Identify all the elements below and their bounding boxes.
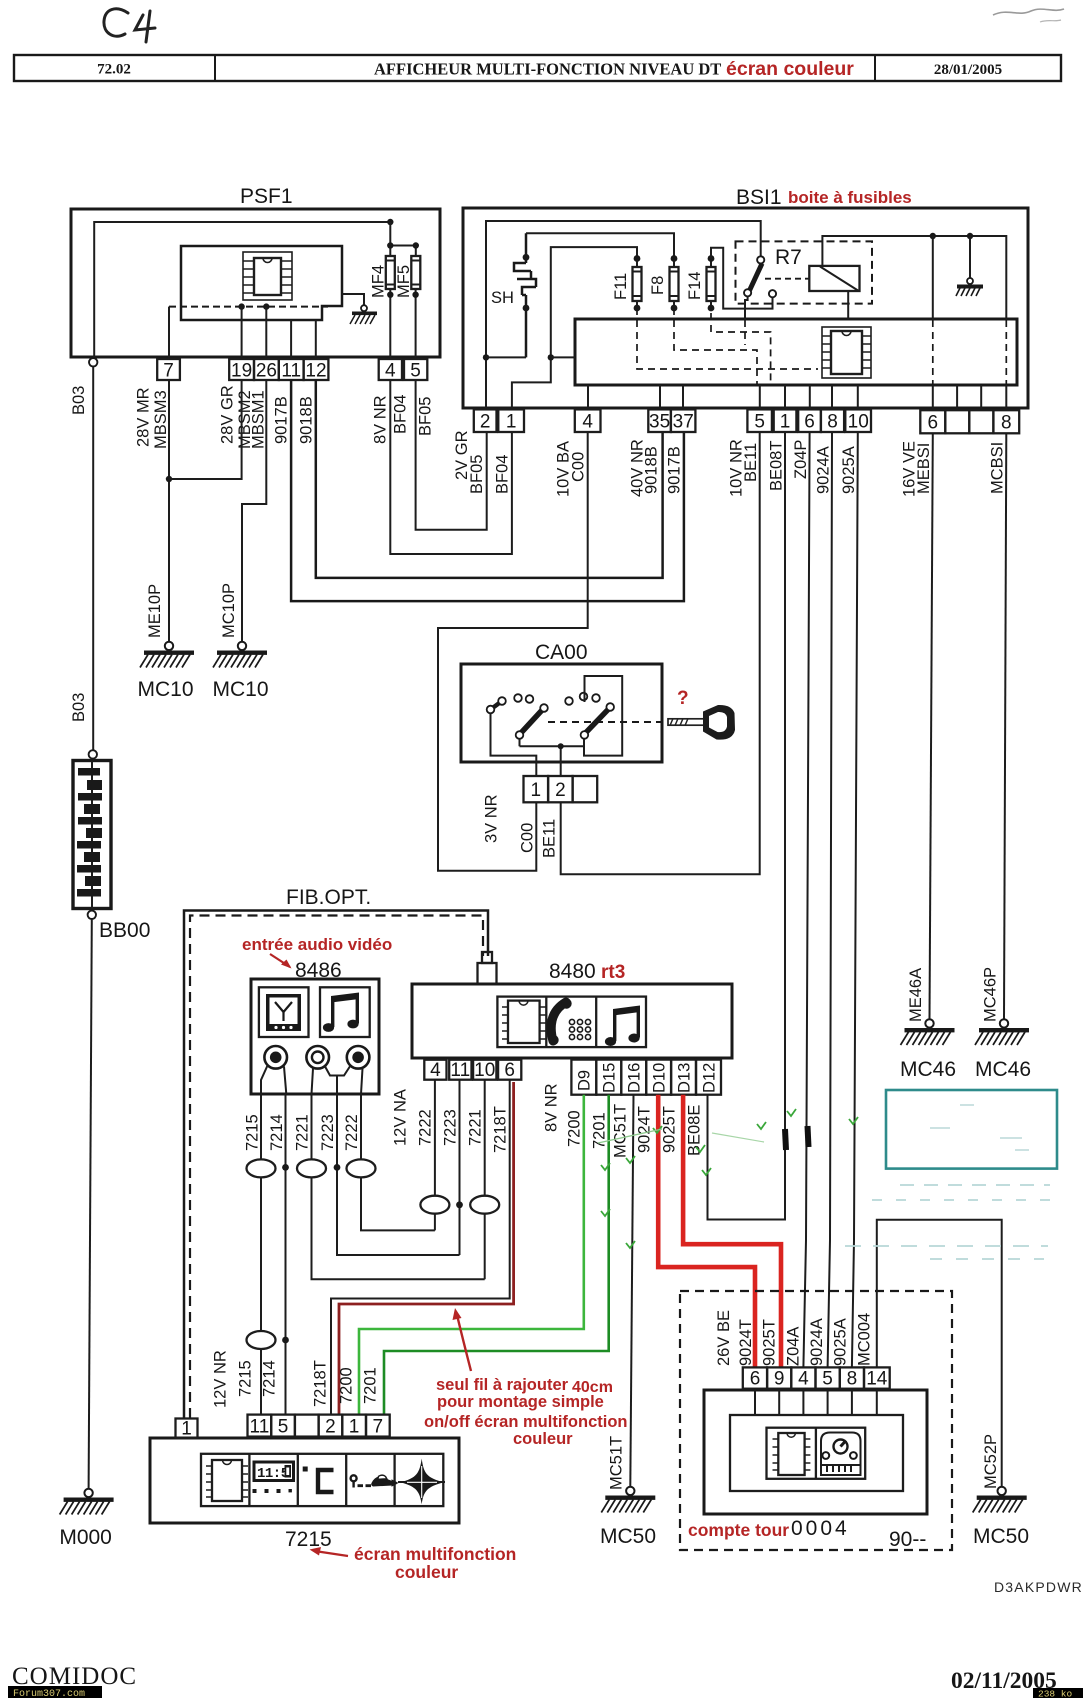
junction xyxy=(413,242,419,248)
PSF1 pin 11 xyxy=(279,359,304,382)
svg-text:FIB.OPT.: FIB.OPT. xyxy=(286,886,371,909)
BSI1 empty pin xyxy=(969,410,993,433)
svg-text:72.02: 72.02 xyxy=(97,62,131,78)
internal dashed MCBSI xyxy=(1005,320,1007,385)
svg-text:MC10P: MC10P xyxy=(220,583,238,638)
svg-text:7200: 7200 xyxy=(566,1110,584,1147)
svg-text:10: 10 xyxy=(848,412,869,433)
0004 pin 14 xyxy=(864,1367,890,1389)
CA00 pin 2 xyxy=(548,776,573,802)
svg-text:on/off écran multifonction: on/off écran multifonction xyxy=(424,1413,628,1431)
8480 pin 11 xyxy=(449,1060,471,1081)
faint green diagonal remnant xyxy=(598,1129,662,1143)
7215 key-car icon xyxy=(351,1475,399,1487)
svg-text:28/01/2005: 28/01/2005 xyxy=(934,62,1002,78)
wire MEBSI to ground xyxy=(930,433,933,1019)
svg-text:90--: 90-- xyxy=(889,1528,926,1551)
junction xyxy=(387,219,393,225)
0004 pin stubs xyxy=(755,1389,877,1415)
BSI1 pin 10 xyxy=(845,409,871,432)
svg-text:1: 1 xyxy=(780,412,791,433)
svg-text:26: 26 xyxy=(256,361,277,382)
svg-text:rt3: rt3 xyxy=(601,962,625,983)
svg-text:11: 11 xyxy=(281,361,301,382)
wire BE11 BSI1 to CA00 xyxy=(561,432,760,874)
ground MC50 right xyxy=(973,1487,1027,1513)
svg-text:12V NA: 12V NA xyxy=(392,1089,410,1146)
node circle above BB00 xyxy=(89,750,97,758)
wire F8 top feed xyxy=(526,233,674,258)
svg-text:7201: 7201 xyxy=(362,1367,380,1404)
wire 9025T red xyxy=(683,1095,781,1368)
wire unit to pin 11 xyxy=(290,320,292,359)
svg-text:C00: C00 xyxy=(519,823,537,853)
svg-text:F11: F11 xyxy=(612,273,630,300)
svg-text:écran multifonction: écran multifonction xyxy=(354,1544,516,1564)
junction xyxy=(166,476,172,482)
90-- dashed enclosure xyxy=(680,1291,952,1551)
svg-text:pour montage simple: pour montage simple xyxy=(437,1393,604,1411)
svg-text:6: 6 xyxy=(750,1369,761,1390)
svg-text:BE08T: BE08T xyxy=(768,441,786,491)
svg-text:26V BE: 26V BE xyxy=(715,1310,733,1366)
svg-text:MC46: MC46 xyxy=(975,1058,1031,1081)
7215 pin 2 xyxy=(319,1415,343,1438)
svg-text:12V NR: 12V NR xyxy=(212,1350,230,1408)
internal dashed F8 xyxy=(674,308,757,385)
BSI1 pin 35 xyxy=(648,409,671,432)
internal dashed MEBSI xyxy=(932,320,934,385)
svg-text:BE11: BE11 xyxy=(742,443,760,482)
8480 pin D13 xyxy=(671,1060,696,1095)
svg-text:7223: 7223 xyxy=(442,1109,460,1146)
BSI1 top feed wire xyxy=(486,221,761,409)
fuse MF4 xyxy=(370,256,395,298)
fuse F14 xyxy=(686,255,716,311)
0004 pin 6 xyxy=(743,1367,767,1389)
svg-text:35: 35 xyxy=(649,412,670,433)
wire BF04 PSF1 to BSI1 xyxy=(390,380,512,554)
svg-text:Forum307.com: Forum307.com xyxy=(13,1689,85,1698)
svg-text:7222: 7222 xyxy=(417,1109,435,1146)
svg-text:F14: F14 xyxy=(686,272,704,300)
svg-text:MC50: MC50 xyxy=(973,1525,1029,1548)
svg-text:écran couleur: écran couleur xyxy=(726,58,854,80)
svg-text:5: 5 xyxy=(278,1417,289,1438)
7215 compass icon xyxy=(398,1459,445,1505)
svg-text:ME10P: ME10P xyxy=(146,584,164,638)
bold marker dash on Z04P xyxy=(808,1126,809,1147)
svg-text:D3AKPDWR: D3AKPDWR xyxy=(994,1579,1083,1595)
svg-text:7221: 7221 xyxy=(294,1114,312,1151)
fuse F11 xyxy=(612,255,642,311)
svg-text:4: 4 xyxy=(385,361,396,382)
switch SH xyxy=(491,233,536,357)
footer forum strip xyxy=(8,1686,102,1698)
svg-text:MC52P: MC52P xyxy=(982,1434,1000,1489)
svg-text:2: 2 xyxy=(555,780,566,801)
BSI1 IC xyxy=(822,327,871,378)
CA00 position contacts xyxy=(514,693,600,705)
svg-text:SH: SH xyxy=(491,289,514,307)
svg-text:MC10: MC10 xyxy=(212,678,268,701)
svg-text:MC46P: MC46P xyxy=(982,967,1000,1022)
wire MBSM2 from pin 19 xyxy=(169,380,242,479)
fiber optic duct solid xyxy=(184,911,488,1419)
svg-text:9017B: 9017B xyxy=(273,396,291,444)
fiber connector plug at 8480 xyxy=(478,952,497,984)
wire 7201 green xyxy=(384,1095,609,1415)
node on dashed bus xyxy=(263,303,269,309)
PSF1 box xyxy=(71,185,440,357)
CA00 lever 1 xyxy=(516,704,548,739)
BSI1 pin 5 xyxy=(747,409,772,432)
svg-text:9018B: 9018B xyxy=(298,396,316,444)
wire 28V MR MBSM3 to ground xyxy=(168,380,170,642)
svg-text:9024A: 9024A xyxy=(808,1318,826,1366)
8486 box xyxy=(251,959,379,1094)
svg-text:MF5: MF5 xyxy=(395,265,413,298)
svg-text:?: ? xyxy=(677,688,689,709)
svg-text:1: 1 xyxy=(506,412,517,433)
wire 7215 8486 to screen xyxy=(260,1094,262,1415)
wire 7200 green xyxy=(359,1095,584,1415)
8486 RCA jack 3 xyxy=(347,1046,370,1069)
svg-text:7218T: 7218T xyxy=(492,1106,510,1153)
svg-text:8486: 8486 xyxy=(295,959,342,982)
8480 music icon xyxy=(605,1006,640,1047)
svg-text:4: 4 xyxy=(798,1369,809,1390)
relay R7 coil link dashed xyxy=(765,278,809,280)
svg-text:9024T: 9024T xyxy=(737,1319,755,1366)
8480 icon strip xyxy=(497,997,646,1048)
svg-text:M000: M000 xyxy=(59,1526,112,1549)
ground MC46 left xyxy=(901,1019,955,1045)
wire 7222 from 8480 pin 4 xyxy=(434,1080,436,1231)
8480 pin D10 xyxy=(646,1060,671,1095)
8480 phone icon xyxy=(548,998,590,1045)
ground MC10 right xyxy=(213,642,267,668)
svg-text:MC51T: MC51T xyxy=(612,1104,630,1158)
PSF1 pin 7 xyxy=(157,359,180,382)
green check marks xyxy=(601,1109,858,1248)
BSI1 pin 1 xyxy=(498,409,524,432)
BSI1 pin 6c xyxy=(920,410,945,433)
wire 9017B PSF1 to BSI1 xyxy=(291,380,684,601)
svg-text:F8: F8 xyxy=(649,276,667,295)
wire 9024A BSI1 to 0004 xyxy=(828,432,832,1367)
svg-text:6: 6 xyxy=(928,413,939,434)
svg-text:D13: D13 xyxy=(676,1063,694,1093)
7215 pin 5 xyxy=(271,1415,295,1438)
svg-text:8480: 8480 xyxy=(549,960,596,983)
wire MBSM1 from pin 26 to ground xyxy=(242,380,266,642)
ground MC50 left xyxy=(601,1487,655,1513)
relay R7 coil xyxy=(809,266,859,291)
fuse MF5 xyxy=(395,256,420,298)
fiber optic duct dashed xyxy=(190,916,483,1419)
svg-text:Z04P: Z04P xyxy=(792,440,810,479)
PSF1 internal supply wire xyxy=(94,222,390,357)
wire BB00 to ground M000 xyxy=(89,919,92,1489)
svg-text:1: 1 xyxy=(181,1419,192,1440)
svg-text:R7: R7 xyxy=(775,246,802,269)
7215 pin 1 fiber xyxy=(176,1419,198,1440)
shield ellipse 7215 xyxy=(247,1159,276,1177)
teal remnant scribbles xyxy=(845,1185,1060,1259)
svg-text:238 ko: 238 ko xyxy=(1038,1689,1073,1698)
svg-text:boite à fusibles: boite à fusibles xyxy=(788,188,912,207)
svg-text:9017B: 9017B xyxy=(666,446,684,494)
svg-text:D16: D16 xyxy=(626,1063,644,1093)
ground MC46 right xyxy=(975,1019,1029,1045)
wire BE08T BSI1 down xyxy=(708,432,786,1220)
BSI1 pin 4 xyxy=(575,409,601,432)
internal dashed relay contact xyxy=(744,320,746,345)
bold marker dash on BE08T xyxy=(785,1129,786,1150)
8480 box xyxy=(412,960,732,1058)
svg-text:MBSM3: MBSM3 xyxy=(152,390,170,449)
svg-text:19: 19 xyxy=(231,361,252,382)
junction 7223 xyxy=(334,1164,341,1171)
svg-text:11: 11 xyxy=(250,1417,270,1438)
junction xyxy=(412,292,418,298)
BSI1 pin 37 xyxy=(671,409,696,432)
wire IC to pin 26 xyxy=(265,307,267,359)
svg-text:MEBSI: MEBSI xyxy=(915,443,933,494)
8486 music icon xyxy=(320,987,370,1037)
svg-text:7: 7 xyxy=(163,361,174,382)
faint pencil scribble top right xyxy=(993,9,1064,15)
ignition key xyxy=(668,705,735,740)
svg-text:B03: B03 xyxy=(70,386,88,415)
PSF1 pin 4 xyxy=(379,359,402,382)
wire 7218T added maroon lead xyxy=(339,1082,514,1415)
junction xyxy=(967,233,973,239)
svg-text:6: 6 xyxy=(804,412,815,433)
8480 pin 4 xyxy=(424,1060,446,1081)
CA00 empty pin xyxy=(573,776,598,802)
PSF1 inner unit box xyxy=(181,246,342,320)
7215 temperature icon xyxy=(303,1467,334,1493)
svg-text:MC51T: MC51T xyxy=(608,1436,626,1490)
8486 RCA jack 1 xyxy=(264,1046,287,1069)
svg-text:couleur: couleur xyxy=(513,1430,573,1448)
wire coil output to module xyxy=(847,291,849,320)
wire fuse MF5 to pin 5 xyxy=(415,289,417,359)
wire Z04P BSI1 to 0004 xyxy=(803,432,809,1367)
svg-text:7215: 7215 xyxy=(285,1528,332,1551)
wire 7214 8486 to screen xyxy=(285,1094,287,1415)
svg-text:MC10: MC10 xyxy=(137,678,193,701)
0004 pin 8 xyxy=(840,1367,864,1389)
BSI1 pin 8c xyxy=(993,410,1019,433)
0004 IC icon xyxy=(773,1433,811,1475)
BSI1 pin 8 xyxy=(821,409,844,432)
svg-text:BE08E: BE08E xyxy=(686,1105,704,1156)
relay R7 dashed box xyxy=(736,241,873,303)
ground M000 xyxy=(60,1489,114,1515)
SH rail xyxy=(486,356,526,358)
junction xyxy=(387,292,393,298)
wire 7221 8486 to 8480 xyxy=(312,1094,485,1279)
PSF1 internal ground xyxy=(342,294,377,324)
7215 empty pin xyxy=(295,1415,319,1437)
svg-text:7221: 7221 xyxy=(467,1109,485,1146)
svg-text:4: 4 xyxy=(430,1060,441,1081)
svg-text:D15: D15 xyxy=(601,1063,619,1093)
svg-text:AFFICHEUR MULTI-FONCTION NIVEA: AFFICHEUR MULTI-FONCTION NIVEAU DT xyxy=(374,60,721,79)
wire 9024T red xyxy=(658,1095,755,1368)
svg-text:7215: 7215 xyxy=(237,1360,255,1397)
svg-text:ME46A: ME46A xyxy=(907,968,925,1022)
svg-text:11:5: 11:5 xyxy=(257,1466,289,1482)
svg-text:MC004: MC004 xyxy=(856,1313,874,1366)
PSF1 IC U1 xyxy=(243,252,292,300)
annotation arrow to maroon wire xyxy=(457,1315,471,1371)
shield ellipse 7215 lower xyxy=(247,1331,276,1349)
node circle below BB00 xyxy=(88,911,96,919)
svg-text:1: 1 xyxy=(349,1417,360,1438)
stub riser to module box xyxy=(551,356,575,358)
wire unit to pin 12 xyxy=(315,320,317,359)
BSI1 inner module box xyxy=(575,319,1017,385)
svg-text:14: 14 xyxy=(866,1369,888,1390)
svg-text:9025A: 9025A xyxy=(840,446,858,494)
svg-text:compte tour: compte tour xyxy=(688,1520,789,1540)
svg-text:8: 8 xyxy=(827,412,838,433)
7215 pin 11 xyxy=(248,1415,272,1438)
CA00 pin 1 xyxy=(524,776,549,802)
handwritten C4 mark xyxy=(104,9,155,42)
svg-text:seul fil à rajouter: seul fil à rajouter xyxy=(436,1376,569,1394)
ground MC10 left xyxy=(140,642,194,668)
BSI1 relay feed bus xyxy=(822,236,1006,320)
wire MC51T to ground xyxy=(630,1095,633,1487)
BSI1 pin 2 xyxy=(474,409,497,432)
svg-text:3V NR: 3V NR xyxy=(483,794,501,843)
svg-text:MC46: MC46 xyxy=(900,1058,956,1081)
CA00 box xyxy=(461,641,662,762)
junction riser to module xyxy=(548,354,554,360)
junction xyxy=(930,233,936,239)
svg-text:7200: 7200 xyxy=(338,1367,356,1404)
svg-text:D9: D9 xyxy=(576,1070,594,1091)
junction 7214 xyxy=(282,1164,289,1171)
wire F14 wrap to relay contact xyxy=(711,248,773,309)
svg-text:6: 6 xyxy=(504,1060,515,1081)
wire BF04 internal riser xyxy=(512,247,637,409)
svg-text:Z04A: Z04A xyxy=(785,1327,803,1366)
teal faint marks in box xyxy=(930,1105,1029,1150)
shield ellipse 7222b xyxy=(420,1196,449,1214)
wire to fuses xyxy=(390,222,416,256)
svg-text:D10: D10 xyxy=(651,1063,669,1093)
8480 pin 6 xyxy=(498,1060,521,1081)
PSF1 pin 19 xyxy=(229,359,254,382)
0004 pin 5 xyxy=(816,1367,840,1389)
0004 gauge icon xyxy=(821,1433,861,1476)
svg-text:8V NR: 8V NR xyxy=(543,1083,561,1132)
wire 9025A BSI1 to 0004 xyxy=(852,432,858,1367)
wire fuse MF4 to pin 4 xyxy=(389,289,391,359)
wire relay contact down xyxy=(745,296,748,320)
BSI1 pin 1b xyxy=(774,409,797,432)
svg-text:MBSM1: MBSM1 xyxy=(250,390,268,449)
svg-text:9: 9 xyxy=(774,1369,785,1390)
svg-text:37: 37 xyxy=(673,412,694,433)
svg-text:8: 8 xyxy=(847,1369,858,1390)
svg-text:2: 2 xyxy=(480,412,491,433)
0004 pin 4 xyxy=(791,1367,815,1389)
svg-text:BF05: BF05 xyxy=(468,455,486,494)
svg-text:10: 10 xyxy=(474,1060,495,1081)
svg-text:7222: 7222 xyxy=(343,1114,361,1151)
svg-text:7: 7 xyxy=(373,1417,384,1438)
7215 IC icon xyxy=(206,1460,248,1501)
svg-text:0004: 0004 xyxy=(791,1517,850,1540)
shield ellipse 7221 xyxy=(297,1159,326,1177)
junction 7223b xyxy=(456,1201,463,1208)
7215 icon strip xyxy=(201,1454,443,1506)
7215 clock icon xyxy=(253,1462,294,1493)
svg-text:7201: 7201 xyxy=(591,1112,609,1149)
svg-text:7214: 7214 xyxy=(268,1114,286,1151)
wire MC004 to ground xyxy=(877,1220,1002,1487)
shield ellipse 7222 xyxy=(347,1159,376,1177)
8480 pin D12 xyxy=(696,1060,721,1095)
CA00 pilot contact xyxy=(487,697,506,713)
svg-text:CA00: CA00 xyxy=(535,641,588,664)
connector strip BB00 xyxy=(73,761,111,909)
annotation arrow to 7215 xyxy=(318,1552,348,1557)
junction xyxy=(558,743,564,749)
0004 inner box xyxy=(730,1415,903,1491)
wire 7223 from 8480 pin 11 xyxy=(459,1080,461,1255)
node on dashed bus xyxy=(238,303,244,309)
svg-text:5: 5 xyxy=(822,1369,833,1390)
wire 7221 from 8480 pin 10 xyxy=(484,1080,486,1280)
0004 box xyxy=(704,1390,927,1514)
8480 pin D9 xyxy=(571,1060,596,1095)
svg-text:PSF1: PSF1 xyxy=(240,185,293,208)
wire B03 vertical xyxy=(92,367,94,751)
svg-text:C00: C00 xyxy=(570,452,588,482)
8480 IC icon xyxy=(502,1001,546,1043)
svg-text:BF04: BF04 xyxy=(494,455,512,494)
wire IC to pin 7 xyxy=(168,307,170,359)
8486 TV icon xyxy=(259,987,309,1037)
CA00 lever 2 xyxy=(581,703,614,739)
PSF1 pin 5 xyxy=(404,359,427,382)
wire 7222 8486 to 8480 xyxy=(361,1094,435,1230)
svg-text:5: 5 xyxy=(754,412,765,433)
wire MEBSI internal xyxy=(932,236,934,320)
title block frame xyxy=(14,55,1061,81)
wire 7218T black run xyxy=(331,1080,510,1415)
svg-text:11: 11 xyxy=(450,1060,470,1081)
svg-text:1: 1 xyxy=(531,780,542,801)
svg-text:9025T: 9025T xyxy=(761,1319,779,1366)
svg-text:MC50: MC50 xyxy=(600,1525,656,1548)
junction 7214 lower xyxy=(282,1337,289,1344)
footer size strip xyxy=(1033,1688,1083,1698)
svg-text:MF4: MF4 xyxy=(370,265,388,298)
wire C00 BSI1 to CA00 xyxy=(438,432,588,871)
8480 pin D16 xyxy=(621,1060,646,1095)
8480 pin 10 xyxy=(473,1060,496,1081)
wire BF05 PSF1 to BSI1 xyxy=(416,380,487,530)
